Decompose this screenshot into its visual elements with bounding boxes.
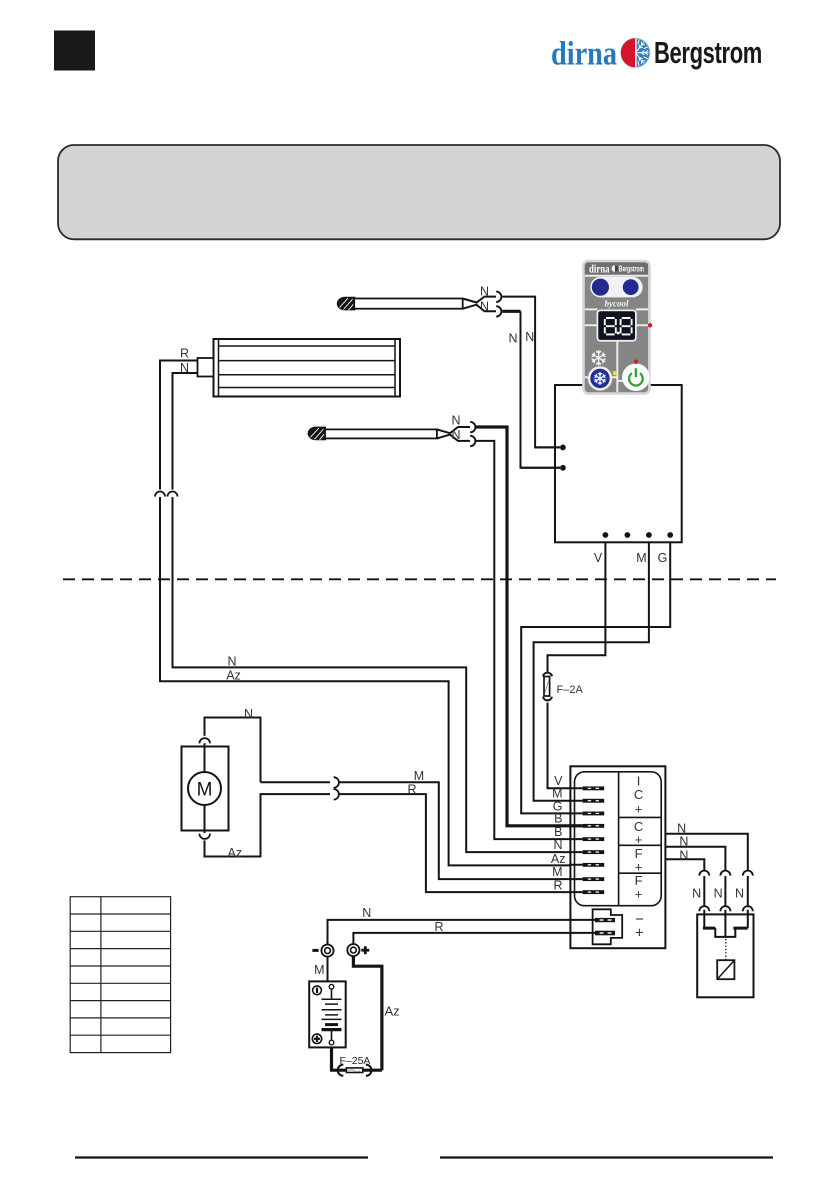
svg-text:Az: Az — [385, 1004, 400, 1019]
svg-text:Az: Az — [551, 852, 566, 866]
svg-text:F–2A: F–2A — [557, 684, 584, 696]
svg-text:N: N — [692, 886, 701, 900]
svg-text:N: N — [679, 835, 688, 849]
svg-text:N: N — [677, 821, 686, 835]
svg-text:R: R — [180, 347, 189, 361]
svg-text:N: N — [679, 849, 688, 863]
svg-text:N: N — [227, 654, 236, 668]
svg-text:Bergstrom: Bergstrom — [619, 264, 644, 274]
svg-text:M: M — [636, 551, 646, 565]
svg-text:+: + — [635, 887, 643, 902]
svg-text:F–25A: F–25A — [340, 1055, 371, 1067]
svg-text:N: N — [362, 906, 371, 920]
svg-text:R: R — [434, 920, 443, 934]
svg-text:N: N — [480, 300, 489, 314]
svg-text:bycool: bycool — [605, 299, 629, 309]
svg-text:M: M — [552, 865, 562, 879]
svg-text:N: N — [553, 838, 562, 852]
svg-text:M: M — [197, 780, 213, 801]
svg-text:dirna: dirna — [589, 264, 610, 276]
svg-text:N: N — [508, 332, 517, 346]
svg-text:M: M — [314, 963, 324, 977]
svg-text:dirna: dirna — [551, 35, 617, 72]
svg-text:N: N — [480, 285, 489, 299]
svg-text:N: N — [244, 707, 253, 721]
svg-text:N: N — [451, 413, 460, 427]
svg-text:Bergstrom: Bergstrom — [654, 35, 762, 70]
svg-text:R: R — [553, 878, 562, 892]
svg-text:R: R — [407, 783, 416, 797]
svg-text:I: I — [637, 773, 641, 788]
svg-text:+: + — [635, 924, 644, 941]
svg-text:G: G — [658, 551, 668, 565]
svg-text:N: N — [180, 361, 189, 375]
svg-text:B: B — [554, 812, 562, 826]
svg-text:V: V — [594, 551, 603, 565]
svg-text:C: C — [634, 787, 643, 802]
svg-text:N: N — [451, 428, 460, 442]
svg-text:N: N — [525, 330, 534, 344]
svg-text:N: N — [735, 886, 744, 900]
svg-text:M: M — [414, 769, 424, 783]
svg-text:+: + — [635, 802, 643, 817]
svg-text:N: N — [714, 886, 723, 900]
svg-text:B: B — [554, 825, 562, 839]
svg-text:Az: Az — [226, 668, 241, 682]
svg-text:F: F — [635, 873, 643, 888]
svg-text:Az: Az — [228, 846, 243, 860]
